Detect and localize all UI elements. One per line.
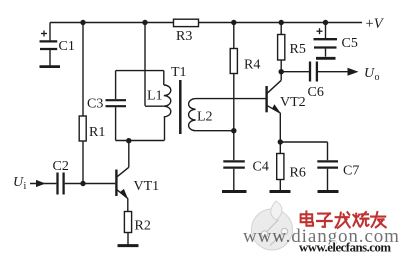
svg-text:VT2: VT2 xyxy=(280,95,306,110)
svg-text:R5: R5 xyxy=(290,42,306,57)
node VT2 emitter xyxy=(278,139,283,144)
capacitor C2 xyxy=(58,173,64,195)
wire R1 to base node xyxy=(82,141,84,184)
wire R4 to L2 node xyxy=(233,74,235,131)
wire R2 to ground xyxy=(127,233,129,245)
wire L2 node down to C4 xyxy=(233,131,235,161)
watermark red chinese characters xyxy=(301,212,386,228)
node rail-tap xyxy=(142,20,147,25)
transistor VT2 xyxy=(267,72,282,113)
svg-text:R4: R4 xyxy=(244,58,260,73)
svg-text:C2: C2 xyxy=(53,159,69,174)
capacitor C7 xyxy=(317,161,338,167)
watermark xyxy=(243,201,400,255)
svg-text:L2: L2 xyxy=(197,110,213,125)
svg-text:+V: +V xyxy=(366,16,385,32)
wire R6 to ground xyxy=(279,180,281,191)
ground (C7) xyxy=(318,190,339,193)
ground (R6) xyxy=(270,190,291,193)
ground (C5) xyxy=(316,57,336,60)
svg-text:T1: T1 xyxy=(171,65,187,80)
svg-text:R1: R1 xyxy=(89,125,105,140)
wire tank top side xyxy=(116,70,164,72)
arrow input Ui xyxy=(36,180,46,187)
wire L2 top to VT2 base xyxy=(196,98,266,100)
wire tank bottom side xyxy=(116,140,165,142)
resistor R6 xyxy=(277,154,284,180)
wire R1 branch vertical xyxy=(82,23,84,117)
svg-text:C4: C4 xyxy=(253,160,269,175)
wire emitter node to C7 xyxy=(280,141,327,143)
inductor L1 xyxy=(164,71,171,141)
wire C4 to ground xyxy=(233,169,235,190)
wire top rail left segment xyxy=(50,22,174,24)
wire tap from rail xyxy=(144,23,146,106)
svg-text:L1: L1 xyxy=(147,89,163,104)
wire R4 branch upper xyxy=(233,23,235,49)
svg-text:C7: C7 xyxy=(343,164,359,179)
wire C2 to base node xyxy=(65,183,116,185)
wire VT2 emitter down xyxy=(279,113,281,142)
svg-text:U: U xyxy=(13,175,24,190)
resistor R5 xyxy=(278,35,285,61)
capacitor C6 xyxy=(310,62,317,82)
svg-text:R2: R2 xyxy=(135,219,151,234)
wire C7 to ground xyxy=(327,169,329,190)
wire C7 branch down xyxy=(327,142,329,160)
svg-text:www.elecfans.com: www.elecfans.com xyxy=(299,241,391,255)
wire collector node to C6 xyxy=(281,71,309,73)
capacitor C3 xyxy=(106,100,127,106)
node tank bottom / VT1 collector xyxy=(126,138,131,143)
transformer core T1 xyxy=(179,80,182,134)
wire tank left lower xyxy=(115,107,117,140)
node rail-R5 xyxy=(279,20,284,25)
capacitor C1 xyxy=(40,23,58,66)
svg-text:R3: R3 xyxy=(176,29,192,44)
wire R5 branch upper xyxy=(280,23,282,35)
arrow output Uo xyxy=(348,68,359,76)
wire C6 to output arrow xyxy=(318,71,348,73)
resistor R4 xyxy=(230,49,237,74)
svg-text:U: U xyxy=(364,66,375,81)
logo circle xyxy=(252,201,293,250)
svg-text:C1: C1 xyxy=(59,39,75,54)
svg-text:C5: C5 xyxy=(342,36,358,51)
svg-text:o: o xyxy=(375,72,380,83)
node L2-R4-C4 xyxy=(231,128,236,133)
wire tap horizontal to L1 xyxy=(145,105,164,107)
wire emitter node to R6 xyxy=(279,142,281,154)
capacitor C4 xyxy=(223,161,245,167)
capacitor C5 xyxy=(314,23,338,57)
node rail-R4 xyxy=(231,20,236,25)
ground (R2) xyxy=(118,244,139,247)
wire top rail mid segment xyxy=(199,22,363,24)
svg-text:C6: C6 xyxy=(308,85,324,100)
svg-text:VT1: VT1 xyxy=(134,179,160,194)
wire L2 bottom to R4 line xyxy=(196,130,234,132)
transistor VT1 xyxy=(116,141,128,199)
wire input line xyxy=(30,183,56,185)
svg-text:i: i xyxy=(24,181,27,192)
ground (C1) xyxy=(40,65,61,68)
node rail-C5 xyxy=(323,20,328,25)
ground (C4) xyxy=(222,190,247,193)
wire VT1 emitter down xyxy=(127,198,129,211)
wire tank left upper xyxy=(115,71,117,99)
resistor R1 xyxy=(79,116,86,141)
arrowhead VT1 emitter xyxy=(120,189,128,199)
wire R5 to collector node xyxy=(280,60,282,72)
svg-text:R6: R6 xyxy=(290,166,306,181)
resistor R3 xyxy=(174,19,199,26)
node rail-R1 xyxy=(80,20,85,25)
svg-text:C3: C3 xyxy=(87,97,103,112)
inductor L2 xyxy=(189,99,196,131)
node VT2 collector xyxy=(279,69,284,74)
resistor R2 xyxy=(124,212,131,233)
arrowhead VT2 emitter xyxy=(272,104,281,113)
node base VT1 xyxy=(80,181,85,186)
